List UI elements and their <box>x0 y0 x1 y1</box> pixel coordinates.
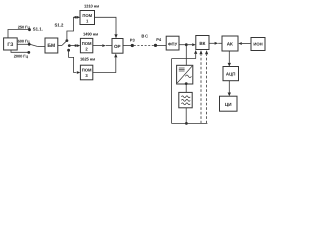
node S1.2 contact 2 <box>68 44 71 47</box>
photoreceiver FPU <box>166 36 179 50</box>
wire OR output <box>123 45 131 47</box>
oscilloscope sine symbol <box>185 75 191 78</box>
wire left loop leg <box>171 59 173 124</box>
svg-text:АК: АК <box>227 41 233 46</box>
svg-text:2000 Гц: 2000 Гц <box>14 54 29 59</box>
wire into FPU <box>157 44 166 46</box>
balanced modulator BM <box>45 38 58 53</box>
svg-text:ПОМ: ПОМ <box>82 68 92 73</box>
svg-text:ОР: ОР <box>114 44 121 49</box>
wire POM1 to OR top <box>95 17 117 34</box>
digital indicator CI <box>220 96 238 111</box>
node S1.1 contact 2 <box>28 43 31 46</box>
svg-text:АЦП: АЦП <box>226 72 236 77</box>
noise generator block G1 <box>179 92 192 107</box>
node junction under oscilloscope <box>185 82 188 85</box>
wire S1.2 contact1 to POM1 <box>67 17 75 40</box>
svg-text:250 Гц: 250 Гц <box>18 24 31 29</box>
svg-text:Р4: Р4 <box>156 37 162 42</box>
wire arrow into ADC <box>228 63 231 67</box>
switch S1.2 arm <box>62 41 67 46</box>
wire to VK <box>188 44 193 46</box>
wire arrow into VK <box>192 43 196 46</box>
oscilloscope digital lines <box>179 67 185 69</box>
svg-text:1625 нм: 1625 нм <box>80 57 95 62</box>
node junction at POM2 input <box>74 44 76 46</box>
wire arrow into AK right <box>238 42 242 45</box>
wire arrow into POM3 <box>77 71 81 74</box>
wire POM2 to OR <box>93 45 103 47</box>
node S1.2 contact 3 <box>67 49 70 52</box>
svg-text:S1.1.: S1.1. <box>33 27 43 32</box>
wire arrow into OR top <box>114 34 117 38</box>
wire ADC to CI <box>228 81 230 93</box>
node connector R3 <box>131 44 134 47</box>
wire ION to AK <box>242 43 251 45</box>
svg-text:ПОМ: ПОМ <box>82 13 92 18</box>
wire arrow into CI <box>228 93 231 97</box>
generator tilde 2 <box>181 99 190 101</box>
optical transmitter POM1 <box>80 11 95 25</box>
svg-text:ВС: ВС <box>141 34 149 39</box>
optical splitter OR <box>112 39 123 54</box>
svg-text:600 Гц: 600 Гц <box>18 38 31 43</box>
wire 250 Hz output <box>8 30 30 38</box>
wire arrow on POM2-OR line <box>102 44 106 47</box>
output switch VK <box>196 36 209 50</box>
node S1.1 contact 1 <box>28 28 31 31</box>
wire S1.1 pole to BM <box>37 45 45 47</box>
wire VK to AK <box>209 42 215 44</box>
wire oscilloscope to generator <box>185 84 187 92</box>
generator GZ (tone generator) <box>4 38 18 50</box>
oscilloscope diagonal <box>177 66 192 83</box>
wire up into VK bottom 1 <box>195 54 197 59</box>
wire arrow into OR bottom <box>114 53 117 57</box>
node junction after FPU <box>185 43 188 46</box>
node connector R4 <box>154 44 157 47</box>
node junction bottom <box>185 122 188 125</box>
wire AK to ADC <box>228 51 230 63</box>
wire junction down to oscilloscope <box>185 45 187 66</box>
svg-text:ИОН: ИОН <box>253 42 262 47</box>
optical transmitter POM2 <box>80 38 92 52</box>
generator tilde 3 <box>181 103 190 105</box>
svg-text:1490 нм: 1490 нм <box>83 31 98 36</box>
svg-text:БМ: БМ <box>47 43 55 49</box>
wire POM3 to OR bottom <box>93 57 116 72</box>
ADC block ACP <box>223 67 239 81</box>
wire FPU output <box>179 44 185 46</box>
svg-text:ПОМ: ПОМ <box>82 41 92 46</box>
optical transmitter POM3 <box>80 65 92 80</box>
wire S1.2 contact2 to POM2 <box>69 45 75 47</box>
wire dashed probe B to VK bottom 3 <box>206 54 208 123</box>
reference source ION <box>251 38 265 51</box>
analog switch AK <box>222 36 238 51</box>
wire arrow into POM1 <box>77 16 81 19</box>
generator tilde 1 <box>181 96 190 98</box>
wire S1.2 contact3 to POM3 <box>69 50 77 72</box>
wire dashed probe A to VK bottom 2 <box>200 54 202 123</box>
svg-text:1310 нм: 1310 нм <box>84 3 99 8</box>
wire 600 Hz output <box>17 43 29 45</box>
node S1.2 contact 1 <box>66 39 69 42</box>
svg-text:S1.2: S1.2 <box>55 23 64 28</box>
node junction at POM1 input <box>74 16 76 18</box>
node S1.1 contact 3 <box>27 51 30 54</box>
svg-text:ГЗ: ГЗ <box>7 42 13 48</box>
wire bottom horizontal <box>172 122 208 124</box>
svg-text:Р3: Р3 <box>130 38 136 43</box>
wire arrow into AK <box>215 42 219 45</box>
switch S1.1 arm <box>30 44 37 46</box>
wire branch horizontal <box>172 58 196 60</box>
wire fiber VS dashed <box>134 45 154 47</box>
oscilloscope block U1 <box>177 65 193 84</box>
wire arrow into POM2 <box>77 44 81 47</box>
svg-text:ФПУ: ФПУ <box>168 41 178 46</box>
svg-text:ВК: ВК <box>199 41 205 46</box>
wire 2000 Hz output <box>11 50 29 52</box>
wire BM output <box>58 44 62 46</box>
svg-text:ЦИ: ЦИ <box>225 102 232 107</box>
wire generator bottom down <box>185 108 187 124</box>
